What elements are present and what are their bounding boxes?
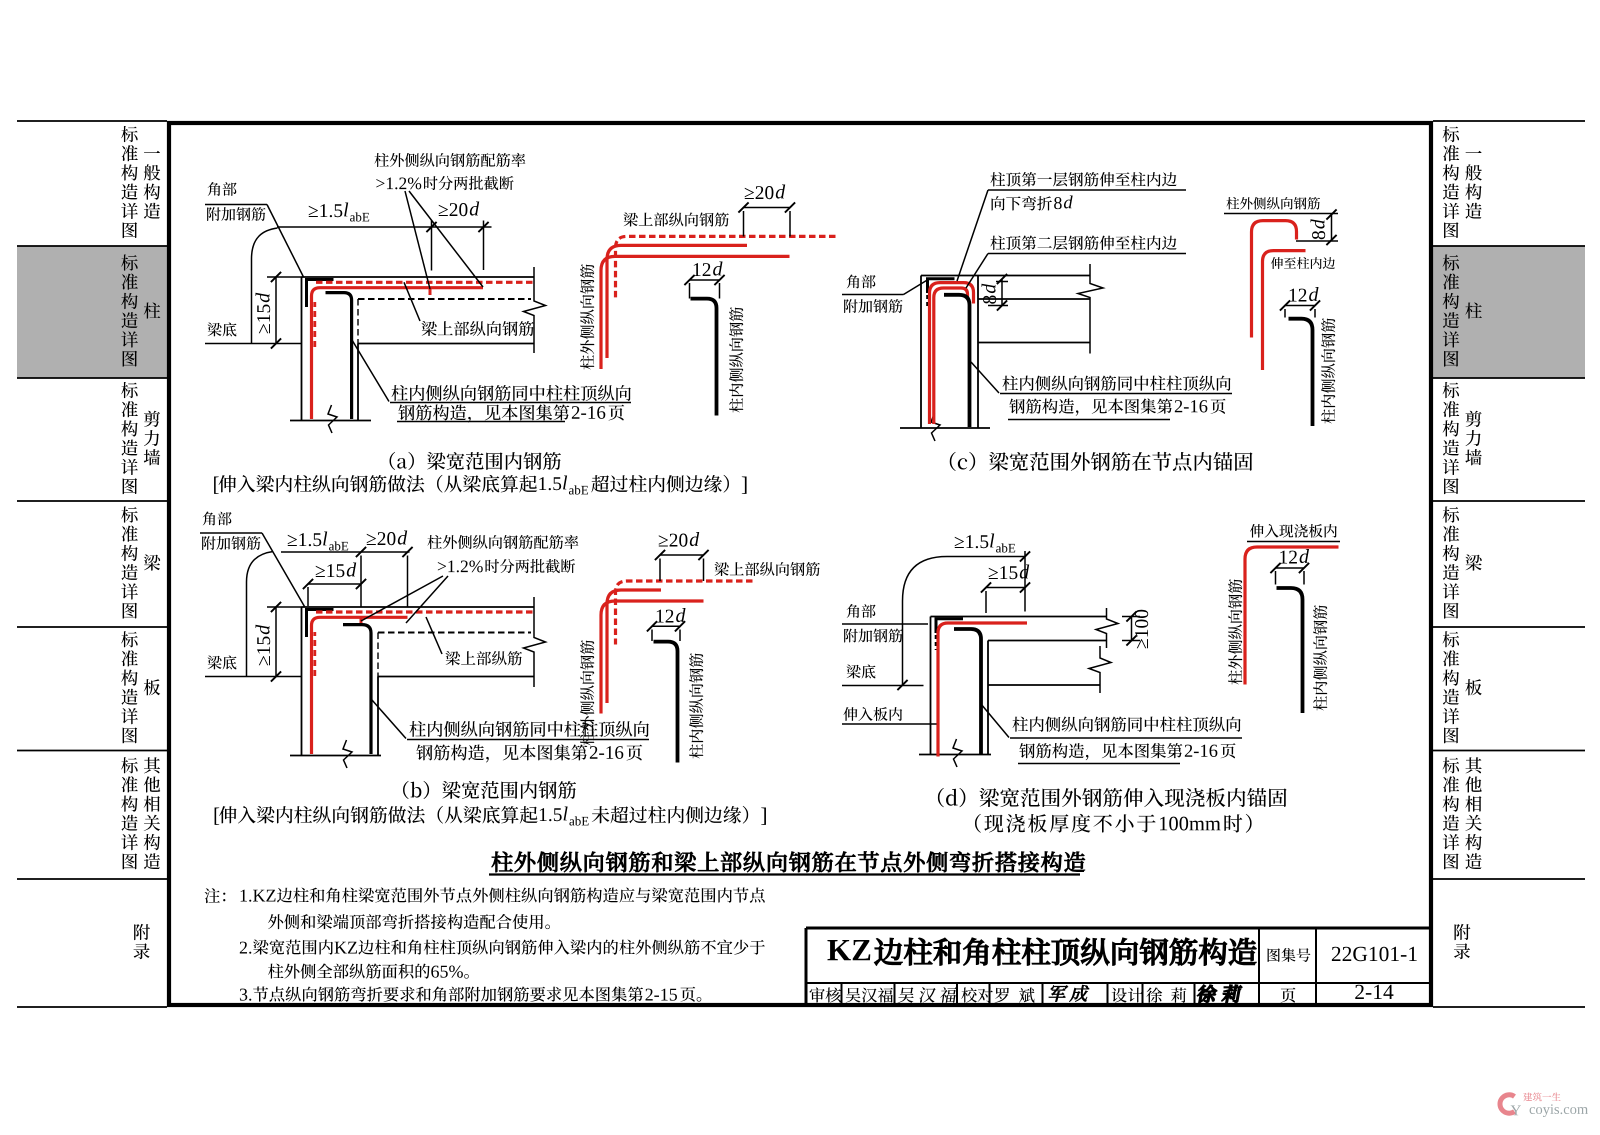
d-right: dim text 12d <box>1280 551 1297 564</box>
left tab 6 text 其他相关构造 <box>144 757 161 869</box>
diagram c: column left edge <box>920 276 922 429</box>
c-right: dim text 8d rotated <box>1311 219 1326 239</box>
diagram b: curved leader branch to 梁底 <box>247 552 274 677</box>
left sidebar horizontal divider 1 <box>17 245 167 247</box>
right tab 1 text 标准构造详图 <box>1443 126 1460 238</box>
diagram c: beam second line <box>978 298 1090 300</box>
title block: signature 徐莉 (bold) <box>1196 985 1242 1003</box>
diagram a: dim ≥1.5labE line <box>277 226 492 228</box>
diagram a: beam top bars red dashed <box>316 281 534 284</box>
title block: outer top border <box>806 927 1431 930</box>
left sidebar horizontal divider 3 <box>17 500 167 502</box>
diagram c: label 向下弯折8d <box>992 196 1052 211</box>
diagram b: label >1.2%时分两批截断 <box>438 560 483 572</box>
left sidebar horizontal divider 2 <box>17 377 167 379</box>
right tab 3 text 标准构造详图 <box>1443 382 1460 494</box>
diagram a: curved leader branch down to 梁底 <box>252 228 278 344</box>
d-right: rotated label 柱内侧纵向钢筋 <box>1313 605 1327 710</box>
a-right: column outer bar 1 red elbow <box>607 245 747 358</box>
d-right: column inner bar black elbow <box>1277 588 1303 713</box>
diagram b: red second-batch bar dashed inside column <box>313 632 316 676</box>
right tab 4 text 标准构造详图 <box>1443 507 1460 619</box>
right tab 3 text 剪力墙 <box>1465 411 1481 466</box>
diagram b: column left edge <box>301 607 303 756</box>
caption b line 2 <box>215 808 220 825</box>
diagram d: column base break zigzag <box>953 739 962 767</box>
b-right: dim >=20d extension lines <box>659 559 661 582</box>
d-right: dim 12d extension lines <box>1275 571 1277 585</box>
diagram a: corner additional rebar (角部附加钢筋) L-shape <box>307 280 334 308</box>
right sidebar horizontal divider 1 <box>1433 245 1585 247</box>
right tab 7 text 附录 <box>1454 924 1470 959</box>
left tab 1 text 标准构造详图 <box>121 126 138 238</box>
diagram c: corner additional rebar L-shape <box>928 279 955 293</box>
diagram b: leader to label <box>372 700 406 739</box>
title block: bottom row divider at 1142.5 <box>1142 983 1144 1005</box>
right tab 6 text 其他相关构造 <box>1465 757 1482 869</box>
d-right: dim 12d line <box>1276 567 1305 569</box>
d-right: rotated label 柱外侧纵向钢筋 <box>1228 579 1242 684</box>
diagram b: extension line second cutoff <box>407 556 409 608</box>
diagram b: dim ≥15d vertical line <box>275 607 277 677</box>
a-right: dim 12d extension lines <box>689 283 691 299</box>
b-right: rotated label 柱外侧纵向钢筋 <box>580 640 594 745</box>
a-right: rotated label 柱外侧纵向钢筋 <box>580 264 594 369</box>
diagram d: dim text ≥100 rotated <box>1135 610 1148 648</box>
diagram a: dim text ≥1.5labE <box>309 204 343 217</box>
diagram c: column top / beam top line <box>921 275 1090 277</box>
right sidebar horizontal divider 2 <box>1433 377 1585 379</box>
diagram d: dim ≥1.5labE bent line (arc) <box>903 557 1026 686</box>
diagram b: beam top extension line <box>267 606 302 608</box>
a-right: dim 12d line <box>690 279 720 281</box>
note 1 line 2 <box>268 914 550 929</box>
main drawing frame (thick border) <box>169 123 1431 1005</box>
b-right: dim >=20d line <box>660 554 704 556</box>
left tab 5 text 标准构造详图 <box>121 631 138 743</box>
watermark: red C logo <box>1500 1095 1515 1113</box>
diagram a: dim tick at first cutoff <box>426 222 436 232</box>
right sidebar horizontal divider 6 <box>1433 878 1585 880</box>
b-right: beam top bars red dashed with bend <box>616 581 753 645</box>
diagram c: second-layer red bar to column inner edge <box>934 288 968 424</box>
diagram a: column base break zigzag <box>328 405 337 433</box>
diagram a: inner column rebar black elbow <box>326 293 352 419</box>
left tab 1 text 一般构造 <box>144 151 161 219</box>
watermark: coyis.com text <box>1530 1104 1588 1117</box>
diagram a: outer column rebar red elbow, solid <box>312 288 484 419</box>
title block: 页 <box>1281 988 1296 1003</box>
diagram a: label 梁上部纵向钢筋 (in beam) <box>421 321 533 336</box>
diagram b: 梁底 line left <box>205 676 302 678</box>
title block: 徐莉 <box>1146 987 1186 1002</box>
diagram a: dim ≥15d top tick <box>271 272 281 282</box>
diagram c: underline row1 <box>1000 393 1232 395</box>
diagram b: leader to second cutoff <box>406 576 448 623</box>
diagram a: label 柱内侧纵向钢筋同中柱柱顶纵向 row1 <box>392 385 631 401</box>
title block: 吴汉福 <box>846 988 893 1003</box>
diagram b: extension line first cutoff <box>360 556 362 608</box>
c-right: dim 12d line <box>1285 305 1315 307</box>
diagram b: label underline <box>200 532 262 534</box>
diagram b: column base break zigzag <box>343 740 352 768</box>
c-right: label 伸至柱内边 <box>1271 257 1335 269</box>
diagram a: label 附加钢筋 <box>207 207 265 221</box>
d-right: label 伸入现浇板内 <box>1250 524 1337 538</box>
diagram b: dim text ≥20d <box>367 532 396 545</box>
d-right: outer column rebar red elbow into slab <box>1245 547 1339 685</box>
a-right: rotated label 柱内侧纵向钢筋 <box>729 307 743 412</box>
diagram c: leader to corner rebar <box>904 281 927 295</box>
diagram c: label 附加钢筋 <box>844 299 902 313</box>
left sidebar horizontal divider 0 <box>17 120 167 122</box>
diagram a: leader 梁上部纵向钢筋 to red bars <box>404 282 420 321</box>
diagram a: label 角部 <box>208 182 237 196</box>
diagram b: label 梁底 <box>207 655 236 669</box>
a-right: dim text 12d <box>694 263 711 276</box>
diagram c: label 柱内侧纵向钢筋同中柱柱顶纵向 row1 <box>1002 376 1230 391</box>
title block: 设计 <box>1112 988 1143 1003</box>
title block: bottom row divider at 957 <box>956 983 958 1005</box>
diagram a: underline row2 <box>397 421 565 423</box>
c-right: dim 8d bottom extension <box>1296 240 1338 242</box>
left sidebar horizontal divider 5 <box>17 750 167 752</box>
diagram c: dim 8d vertical line <box>1001 279 1003 306</box>
diagram a: dim ≥15d vertical line <box>275 277 277 344</box>
watermark: 建筑一生 text <box>1523 1093 1560 1102</box>
diagram a: column right edge below beam <box>357 344 359 421</box>
note 1 line 1 <box>241 890 252 902</box>
c-right: column inner bar black elbow <box>1289 319 1313 426</box>
diagram b: label 柱外侧纵向钢筋配筋率 <box>427 535 578 549</box>
diagram a: red second-batch bar dashed (inside column) <box>313 302 316 347</box>
diagram d: slab break line <box>1096 608 1118 648</box>
diagram a: leader 角部附加钢筋 to corner <box>267 205 304 278</box>
diagram a: label >1.2%时分两批截断 <box>376 177 421 189</box>
diagram c: underline 角部附加钢筋 <box>842 294 904 296</box>
title block: vertical divider before 图集号 <box>1258 928 1260 1005</box>
diagram b: dim text ≥15d <box>316 564 345 577</box>
diagram a: ground line at column base <box>290 420 371 422</box>
c-right: dim 12d extension lines <box>1284 309 1286 318</box>
diagram d: underline row2 <box>1018 763 1180 765</box>
diagram a: beam bottom line (right part, under 梁上部纵向钢筋 text) <box>358 343 534 345</box>
b-right: column outer bar 2 red elbow <box>601 601 704 714</box>
diagram a: underline row1 <box>390 402 631 404</box>
diagram d: label 附加钢筋 <box>844 629 902 643</box>
b-right: column inner bar black elbow <box>654 642 678 763</box>
diagram a: label underline 角部附加钢筋 <box>205 204 267 206</box>
diagram d: underline 角部附加钢筋 <box>842 623 928 625</box>
c-right: underline / 8d top reference <box>1224 213 1338 215</box>
diagram b: inner column rebar black elbow <box>343 625 371 754</box>
c-right: rotated label 柱内侧纵向钢筋 <box>1321 318 1335 423</box>
a-right: dim text ≥20d <box>745 186 774 199</box>
diagram c: underline label 2 <box>988 253 1186 255</box>
caption b line 1 <box>403 781 576 799</box>
diagram c: column right edge <box>977 276 979 429</box>
left sidebar horizontal divider 4 <box>17 626 167 628</box>
diagram c: beam bottom line <box>978 342 1090 344</box>
caption d line2 <box>975 814 1156 833</box>
left sidebar horizontal divider 7 <box>17 1006 167 1008</box>
left tab 6 text 标准构造详图 <box>121 757 138 869</box>
a-right: dim ≥20d line <box>744 207 791 209</box>
title block: bottom row divider at 1194.5 <box>1194 983 1196 1005</box>
diagram b: label 梁上部纵筋 <box>445 651 521 665</box>
diagram c: label 柱顶第一层钢筋伸至柱内边 <box>990 172 1176 187</box>
title block: vertical divider before 22G101-1 <box>1315 928 1317 1005</box>
diagram b: ≥15d left extension <box>307 587 309 606</box>
diagram c: leader label2 to second-layer bar <box>966 254 988 289</box>
diagram a: dim ≥15d bottom tick <box>271 338 281 348</box>
diagram c: label 柱顶第二层钢筋伸至柱内边 <box>990 236 1176 251</box>
right tab 5 text 板 <box>1465 679 1481 695</box>
title block: bottom row divider at 1042.5 <box>1042 983 1044 1005</box>
diagram d: dim ≥100 vertical line <box>1131 617 1133 641</box>
watermark: gray Y glyph <box>1511 1105 1521 1115</box>
diagram a: label 梁底 <box>207 322 236 336</box>
right sidebar horizontal divider 3 <box>1433 500 1585 502</box>
right tab 1 text 一般构造 <box>1465 151 1482 219</box>
diagram b: outer column rebar red elbow solid <box>312 617 408 754</box>
c-right: first-layer red bar with 8d hook <box>1252 221 1297 338</box>
diagram c: underline row2 <box>1008 419 1170 421</box>
left tab 4 text 梁 <box>144 555 160 571</box>
left tab 4 text 标准构造详图 <box>121 507 138 619</box>
left tab 7 text 附录 <box>134 924 150 959</box>
c-right: label 柱外侧纵向钢筋 <box>1226 197 1320 210</box>
left sidebar horizontal divider 6 <box>17 878 167 880</box>
diagram d: 伸入板内 line to red bar <box>842 723 937 725</box>
diagram a: dim text ≥20d <box>439 203 468 216</box>
diagram b: dim ≥15d horizontal line <box>308 583 361 585</box>
diagram b: beam top bars red dashed <box>316 610 534 613</box>
diagram d: corner additional rebar dashed lower leg <box>935 635 938 650</box>
title block: 审核 <box>810 987 841 1002</box>
diagram d: extension vertical at bar end <box>1024 551 1026 612</box>
diagram d: dim text ≥1.5labE <box>955 535 989 548</box>
b-right: dim text 12d <box>657 610 674 623</box>
diagram a: leader to 柱内侧 label <box>352 340 389 402</box>
diagram d: leader to label <box>981 704 1009 738</box>
notes: 注： <box>205 888 226 903</box>
diagram b: beam top line <box>302 606 535 608</box>
diagram d: ≥15d left extension <box>985 591 987 613</box>
diagram a: beam top extension line (left of column) <box>267 276 302 278</box>
diagram d: corner additional rebar L-shape <box>936 619 963 633</box>
diagram b: leader to corner <box>262 533 305 607</box>
right sidebar horizontal divider 4 <box>1433 626 1585 628</box>
title block: 2-14 <box>1355 985 1393 999</box>
diagram b: beam second line dashed <box>378 632 531 634</box>
diagram a: red first-batch cutoff tick <box>429 289 432 295</box>
diagram c: column base break zigzag <box>931 413 940 441</box>
diagram d: beam bottom line right <box>988 684 1100 686</box>
diagram a: column left edge <box>301 277 303 421</box>
title block: signature 军成 (cursive) <box>1048 985 1091 1002</box>
diagram d: column left edge <box>930 617 932 755</box>
diagram a: label 柱外侧纵向钢筋配筋率 <box>374 153 525 167</box>
diagram c: first-layer red bar with 8d hook <box>930 283 974 424</box>
right sidebar horizontal divider 5 <box>1433 750 1585 752</box>
caption a line 1 <box>390 452 561 470</box>
diagram d: dim text ≥15d <box>989 566 1018 579</box>
diagram b: column right edge dashed in beam <box>377 633 379 677</box>
c-right: second-layer red bar <box>1263 251 1306 370</box>
diagram b: label 角部 <box>203 512 232 526</box>
diagram b: leader to first cutoff <box>361 576 443 621</box>
diagram d: slab bottom line <box>988 640 1107 642</box>
diagram b: dim text ≥1.5labE <box>288 533 322 546</box>
left tab 2 text 柱 <box>144 303 161 319</box>
title block: 图集号 <box>1268 948 1311 962</box>
right tab 2 text 标准构造详图 <box>1443 255 1460 367</box>
diagram d: 梁底 line <box>842 685 924 687</box>
diagram d: beam break line lower <box>1089 646 1111 693</box>
diagram d: inner column rebar black elbow <box>954 629 981 754</box>
note 3 <box>240 989 251 1001</box>
diagram b: label 钢筋构造，见本图集第2-16页 row2 <box>416 744 587 762</box>
diagram a: dim tick at second cutoff <box>478 222 488 232</box>
diagram c: label 角部 <box>847 275 876 289</box>
diagram b: dim text ≥15d rotated <box>256 625 271 665</box>
c-right: dim text 12d <box>1290 289 1307 302</box>
right tab 2 text 柱 <box>1465 303 1482 319</box>
section title 柱外侧纵向钢筋和梁上部纵向钢筋在节点外侧弯折搭接构造 (bold, underlined) <box>492 851 1085 872</box>
diagram d: label 梁底 <box>846 664 875 678</box>
diagram c: inner column rebar black elbow <box>944 295 970 427</box>
diagram a: dim text ≥15d rotated <box>256 293 271 333</box>
diagram c: leader to label <box>971 362 999 393</box>
b-right: dim 12d line <box>652 625 680 627</box>
diagram b: label 附加钢筋 <box>202 536 260 550</box>
diagram a: beam bottom line (梁底 level, left part) <box>205 343 302 345</box>
diagram c: corner additional rebar dashed lower leg <box>926 295 929 308</box>
title block: bottom row divider at 841.5 <box>841 983 843 1005</box>
title block: bottom row divider at 894.5 <box>894 983 896 1005</box>
left tab 2 text 标准构造详图 <box>121 255 138 367</box>
left tab 3 text 标准构造详图 <box>121 382 138 494</box>
diagram d: outer column rebar red elbow into slab <box>938 623 1027 757</box>
d-right: underline 伸入现浇板内 <box>1247 541 1340 543</box>
b-right: dim text >=20d <box>659 534 688 547</box>
title block: main title KZ边柱和角柱柱顶纵向钢筋构造 <box>827 940 870 960</box>
diagram b: beam bottom line right <box>378 676 534 678</box>
diagram d: dim ≥15d line <box>986 587 1025 589</box>
left tab 5 text 板 <box>144 679 160 695</box>
diagram a: beam top line <box>302 276 535 278</box>
diagram c: leader label1 to first-layer bar <box>957 190 988 281</box>
note 2 line 2 <box>268 964 430 979</box>
diagram a: column right edge hidden in beam (dashed) <box>357 299 359 344</box>
diagram d: ground line <box>919 754 991 756</box>
diagram b: underline row1 <box>407 739 649 741</box>
title block: bottom row divider at 989.5 <box>989 983 991 1005</box>
a-right: beam top bars red dashed with bend <box>616 236 836 300</box>
diagram b: corner additional rebar L-shape <box>307 610 334 638</box>
diagram d: ≥100 extension lines <box>1122 616 1140 618</box>
diagram c: dim 8d bottom extension <box>988 305 1008 307</box>
caption a line 2 <box>214 477 219 494</box>
right sidebar horizontal divider 7 <box>1433 1006 1585 1008</box>
diagram a: leader label to second cutoff <box>409 191 483 287</box>
diagram c: ground line at column base <box>900 427 990 429</box>
right sidebar horizontal divider 0 <box>1433 120 1585 122</box>
diagram a: extension line first cutoff <box>431 221 433 271</box>
b-right: dim 12d extension lines <box>651 630 653 642</box>
diagram d: slab top line <box>931 616 1107 618</box>
diagram d: column right edge <box>987 641 989 755</box>
a-right: dim ≥20d extension lines <box>743 211 745 237</box>
left tab 3 text 剪力墙 <box>144 411 160 466</box>
title block: 22G101-1 <box>1332 947 1417 962</box>
a-right: label 梁上部纵向钢筋 <box>623 212 728 226</box>
b-right: column outer bar 1 red elbow <box>607 590 661 703</box>
diagram c: dim text 8d rotated <box>982 284 997 304</box>
diagram d: underline row1 <box>1010 737 1242 739</box>
diagram b: dim line ≥1.5labE / ≥20d <box>281 551 410 553</box>
caption c <box>950 452 1253 471</box>
diagram c: label 钢筋构造，见本图集第2-16页 row2 <box>1009 398 1172 415</box>
diagram d: label 角部 <box>847 604 876 618</box>
diagram d: label 钢筋构造，见本图集第2-16页 row2 <box>1019 743 1182 760</box>
title block: signature 吴汉福 (handwritten) <box>898 987 958 1003</box>
diagram b: leader 梁上部纵筋 <box>426 617 442 654</box>
title block: 罗斌 <box>995 988 1035 1003</box>
right tab 5 text 标准构造详图 <box>1443 631 1460 743</box>
title block: left border <box>805 928 808 1005</box>
left sidebar tab background: 柱 (active, gray) <box>17 246 167 378</box>
title block: 校对 <box>961 988 993 1003</box>
b-right: rotated label 柱内侧纵向钢筋 <box>689 653 703 758</box>
right tab 4 text 梁 <box>1465 555 1481 571</box>
diagram a: beam second line dashed <box>358 298 531 300</box>
diagram b: label 柱内侧纵向钢筋同中柱柱顶纵向 row1 <box>410 721 649 737</box>
diagram b: beam end break line <box>524 597 546 687</box>
title block: middle horizontal line <box>806 982 1431 984</box>
diagram a: label 钢筋构造，见本图集第2-16页 row2 <box>398 404 569 422</box>
diagram d: tick at 梁底 <box>897 680 907 690</box>
note 2 line 1 <box>240 942 252 954</box>
right sidebar tab background: 柱 (active, gray) <box>1433 246 1585 378</box>
diagram d: label 柱内侧纵向钢筋同中柱柱顶纵向 row1 <box>1012 717 1240 732</box>
b-right: label 梁上部纵向钢筋 <box>714 562 819 576</box>
diagram a: extension line second cutoff <box>483 221 485 271</box>
diagram d: label 伸入板内 <box>843 707 902 721</box>
diagram a: leader label to first cutoff <box>405 191 430 289</box>
title block: bottom row divider at 1107.5 <box>1107 983 1109 1005</box>
a-right: column outer bar 2 red elbow <box>601 256 790 369</box>
diagram c: beam end break line <box>1078 264 1103 354</box>
a-right: column inner bar black elbow <box>691 299 717 416</box>
c-right: dim 8d vertical line <box>1331 215 1333 241</box>
diagram c: dim 8d top extension <box>996 281 1008 283</box>
diagram b: column right edge below beam <box>377 677 379 756</box>
right tab 6 text 标准构造详图 <box>1443 757 1460 869</box>
diagram b: red first-batch cutoff tick <box>360 619 363 625</box>
diagram d: tick at right end <box>1020 551 1030 561</box>
caption d line1 <box>938 788 1287 807</box>
diagram c: underline label 1 <box>988 189 1186 191</box>
diagram a: beam end break line <box>524 267 546 353</box>
diagram b: ground line <box>290 755 381 757</box>
